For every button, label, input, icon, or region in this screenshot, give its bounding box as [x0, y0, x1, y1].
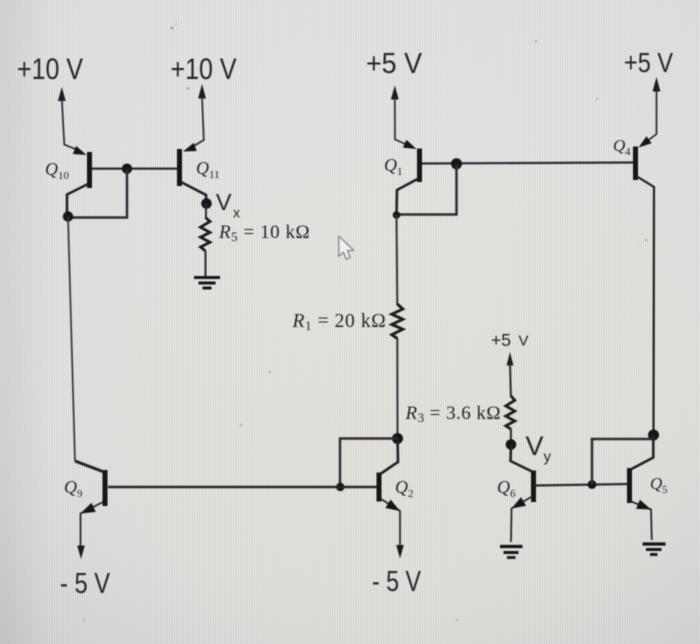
svg-text:y: y [544, 449, 552, 466]
wire Q1 collector to R1 [396, 215, 399, 305]
svg-text:- 5 V: - 5 V [60, 568, 111, 600]
svg-text:V: V [216, 189, 232, 215]
label +5 V (Q1 supply) [366, 48, 423, 80]
dust specks [83, 23, 647, 621]
label Q9 [64, 477, 83, 500]
wire diode tie Q10 base to collector [68, 169, 127, 218]
svg-text:4: 4 [625, 146, 631, 158]
label +10 V (second supply) [171, 53, 237, 86]
label Q4 [613, 136, 631, 158]
label Q2 [395, 477, 414, 500]
ground below R5 [194, 278, 220, 289]
wire Vx node to R5 [205, 204, 207, 220]
wire diode tie Q5 collector to base [592, 439, 653, 485]
svg-text:+5: +5 [491, 330, 511, 350]
svg-text:Q: Q [613, 136, 625, 155]
resistor R3 [506, 396, 515, 429]
svg-text:1: 1 [397, 166, 403, 178]
wire Q6 base to Q5 base [536, 484, 628, 486]
supply arrow -5 V from Q2 emitter [396, 545, 404, 559]
svg-text:- 5 V: - 5 V [372, 566, 422, 598]
supply arrow +10 V to Q10 emitter [58, 87, 79, 151]
svg-text:Q: Q [196, 158, 209, 178]
svg-text:+10 V: +10 V [17, 53, 83, 86]
wire Q1 base to Q4 base [422, 163, 633, 164]
mouse cursor [339, 236, 354, 259]
svg-text:2: 2 [408, 488, 414, 500]
node Q5 base junction [588, 480, 597, 489]
label Vx [216, 189, 240, 221]
resistor R5 [201, 218, 211, 252]
node base of Q1/Q4 [451, 158, 462, 169]
svg-text:10: 10 [58, 170, 70, 182]
svg-text:6: 6 [510, 488, 516, 500]
transistor Q11 (pnp) [180, 143, 207, 203]
transistor Q6 (npn) [511, 445, 534, 543]
label -5 V (middle) [372, 566, 422, 598]
node Vy [506, 439, 517, 450]
wire R5 to ground [205, 251, 207, 276]
svg-text:x: x [233, 205, 240, 221]
supply arrow +10 V to Q11 emitter [187, 84, 206, 150]
ground below Q5 [643, 544, 666, 555]
label Q5 [650, 474, 668, 496]
wire R3 to node Vy [510, 428, 512, 444]
node Q10 collector [63, 211, 73, 221]
svg-text:5: 5 [662, 484, 668, 496]
svg-text:+5 V: +5 V [366, 48, 423, 80]
svg-text:+5 V: +5 V [624, 47, 673, 78]
supply arrow -5 V from Q9 emitter [77, 546, 85, 560]
transistor Q4 (pnp) [636, 136, 655, 435]
ground below Q6 [500, 547, 523, 558]
node Q1 collector [393, 211, 401, 219]
label +5 V (Q4 supply) [624, 47, 673, 78]
resistor R1 [392, 304, 403, 339]
svg-text:Q: Q [650, 474, 662, 493]
wire Q9 base to Q2 base [108, 486, 378, 489]
label Q10 [45, 159, 70, 182]
node R1 / Q2 collector [392, 433, 403, 444]
wire Q10 collector down to Q9 collector [68, 217, 75, 462]
transistor Q5 (npn, diode-connected) [630, 435, 654, 540]
label Q6 [497, 477, 516, 500]
svg-text:Q: Q [64, 477, 77, 497]
label R1 = 20 kOhm [292, 311, 387, 333]
supply arrow +5 V to Q4 emitter [648, 77, 660, 141]
svg-text:Q: Q [384, 155, 397, 175]
transistor Q10 (pnp, diode-connected) [67, 146, 90, 216]
label Q11 [196, 158, 220, 181]
transistor Q9 (npn) [75, 461, 105, 550]
label R5 = 10 kOhm [218, 222, 310, 244]
supply arrow +5 V to Q1 emitter [391, 86, 409, 146]
label +5 V (R3 supply) [491, 330, 529, 350]
svg-text:11: 11 [209, 169, 220, 181]
svg-text:V: V [526, 431, 544, 461]
node base of Q10/Q11 [122, 164, 132, 174]
label Q1 [384, 155, 403, 178]
supply arrow +5 V to R3 [507, 352, 514, 397]
wire diode tie Q1 base to collector [397, 164, 457, 215]
wire Q10 base to Q11 base [92, 168, 177, 170]
label -5 V (left) [60, 568, 111, 600]
label +10 V (left supply) [17, 53, 83, 86]
wire R1 to Q2 collector node [396, 338, 398, 439]
node Vx [201, 198, 212, 209]
transistor Q1 (pnp, diode-connected) [397, 140, 420, 215]
svg-text:+10 V: +10 V [171, 53, 237, 86]
transistor Q2 (npn) [379, 439, 400, 550]
svg-text:9: 9 [77, 488, 83, 500]
wire feedback tie node to Q2 base line [340, 439, 398, 488]
svg-text:Q: Q [497, 477, 510, 497]
node Q2 base junction [336, 483, 344, 491]
svg-text:Q: Q [45, 159, 58, 179]
svg-text:V: V [519, 333, 529, 350]
svg-text:Q: Q [395, 477, 408, 497]
node Q4 collector / Q5 [648, 430, 659, 441]
label Vy [526, 431, 552, 466]
label R3 = 3.6 kOhm [405, 403, 501, 425]
